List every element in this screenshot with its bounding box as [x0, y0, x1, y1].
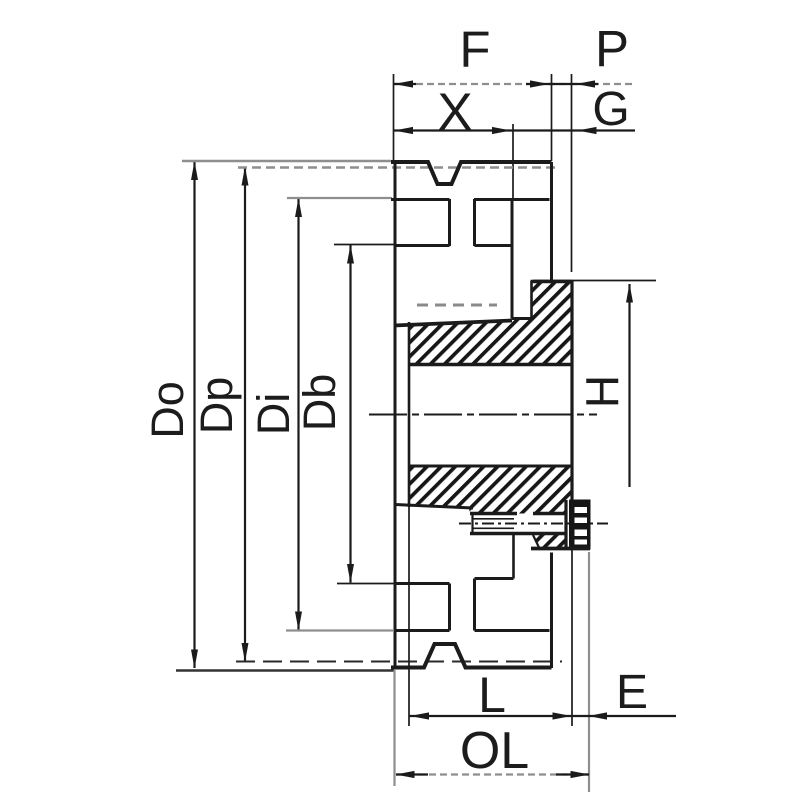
flange top	[531, 280, 573, 283]
recess bottom right upper	[475, 244, 513, 247]
slot right wall upper	[530, 281, 533, 319]
recess top right lower	[475, 577, 514, 580]
bolt centerline	[459, 523, 608, 525]
arrow X left	[394, 127, 413, 134]
bolt head slit 3	[575, 530, 588, 537]
dimension Do	[193, 162, 195, 669]
hatch region bushing upper band + flange	[409, 282, 572, 365]
bolt head left face	[564, 500, 567, 549]
dimension L/E line	[409, 715, 676, 717]
extension OL left (gray)	[393, 670, 395, 786]
svg-text:Di: Di	[248, 393, 299, 436]
hatch region bushing lower band	[409, 466, 573, 514]
bolt thread line lower	[472, 527, 514, 529]
extension Di bottom (gray)	[286, 629, 393, 631]
bolt top left segment	[470, 512, 517, 515]
flange bottom	[531, 547, 590, 551]
dimension H	[628, 284, 630, 487]
hub right face upper	[511, 199, 514, 319]
extension Do bottom (gray)	[176, 669, 394, 671]
svg-text:Do: Do	[142, 381, 193, 439]
bushing taper top	[394, 321, 512, 326]
extension Di top (gray)	[287, 197, 392, 199]
rim right face lower	[550, 553, 553, 669]
extension line P left	[551, 74, 553, 161]
arrow F left	[394, 80, 413, 87]
svg-text:Db: Db	[294, 374, 345, 432]
rim bottom with V-groove	[391, 644, 552, 668]
web left wall upper	[448, 199, 451, 246]
extension Db top	[334, 244, 394, 246]
rim top with V-groove	[391, 162, 552, 184]
svg-text:Dp: Dp	[191, 377, 242, 435]
svg-text:H: H	[577, 375, 629, 408]
bore top	[409, 363, 572, 366]
pitch line upper (gray dashed)	[238, 166, 560, 169]
extension line X right	[512, 124, 514, 199]
recess top left lower	[394, 582, 450, 585]
bore bottom	[409, 465, 573, 468]
bolt thread line upper	[472, 518, 514, 520]
web right wall lower	[473, 579, 476, 631]
svg-text:L: L	[478, 667, 506, 723]
bolt head slit 4	[575, 540, 588, 545]
bolt top right segment	[533, 512, 567, 515]
bushing left face	[408, 322, 411, 507]
arrow F right	[530, 80, 549, 87]
recess bottom right lower	[475, 629, 550, 632]
extension line F/X left	[393, 74, 395, 161]
extension OL/E right (gray)	[588, 552, 590, 792]
dimension Db	[349, 245, 351, 583]
bolt head slit 2	[575, 518, 588, 524]
pulley left face	[394, 162, 397, 668]
web right wall upper	[473, 199, 476, 246]
hatch region flange below bolt	[533, 534, 567, 549]
svg-text:E: E	[616, 666, 648, 719]
slot bottom upper	[512, 317, 532, 320]
rim underside right	[474, 198, 550, 201]
extension L left	[408, 507, 410, 726]
bolt head block	[569, 500, 591, 550]
dimension Di	[297, 199, 299, 631]
dimension Dp	[244, 167, 246, 662]
dimension OL line	[396, 773, 589, 775]
pitch line lower (black dashed)	[236, 660, 562, 662]
dimension X/G line	[394, 129, 635, 131]
bolt head slit 1	[575, 507, 588, 513]
bolt bottom	[470, 532, 567, 535]
extension line P/G right	[571, 74, 573, 272]
bolt left end	[471, 513, 473, 534]
web left wall lower	[448, 584, 451, 631]
flange lower left slant	[533, 535, 540, 549]
recess bottom left lower	[394, 629, 450, 632]
extension Do top (gray)	[182, 160, 391, 162]
svg-text:P: P	[595, 20, 629, 77]
bushing taper bottom	[395, 505, 473, 509]
rim right face upper	[550, 162, 553, 280]
arrow P	[576, 80, 595, 87]
hidden line upper (gray dashed)	[417, 304, 497, 307]
flange right face	[570, 281, 573, 500]
recess bottom left upper	[394, 244, 450, 247]
rim underside left	[391, 198, 450, 201]
extension H top	[533, 280, 656, 282]
svg-text:F: F	[459, 21, 490, 78]
svg-text:X: X	[437, 83, 472, 142]
svg-text:OL: OL	[460, 722, 529, 780]
arrow G	[578, 127, 597, 134]
main centerline	[369, 413, 597, 415]
hub right face lower	[512, 534, 515, 579]
arrow X right	[492, 127, 511, 134]
extension Db bottom	[337, 583, 394, 585]
svg-text:G: G	[592, 83, 629, 136]
dimension F/P line	[394, 83, 634, 85]
extension L right	[571, 549, 573, 726]
